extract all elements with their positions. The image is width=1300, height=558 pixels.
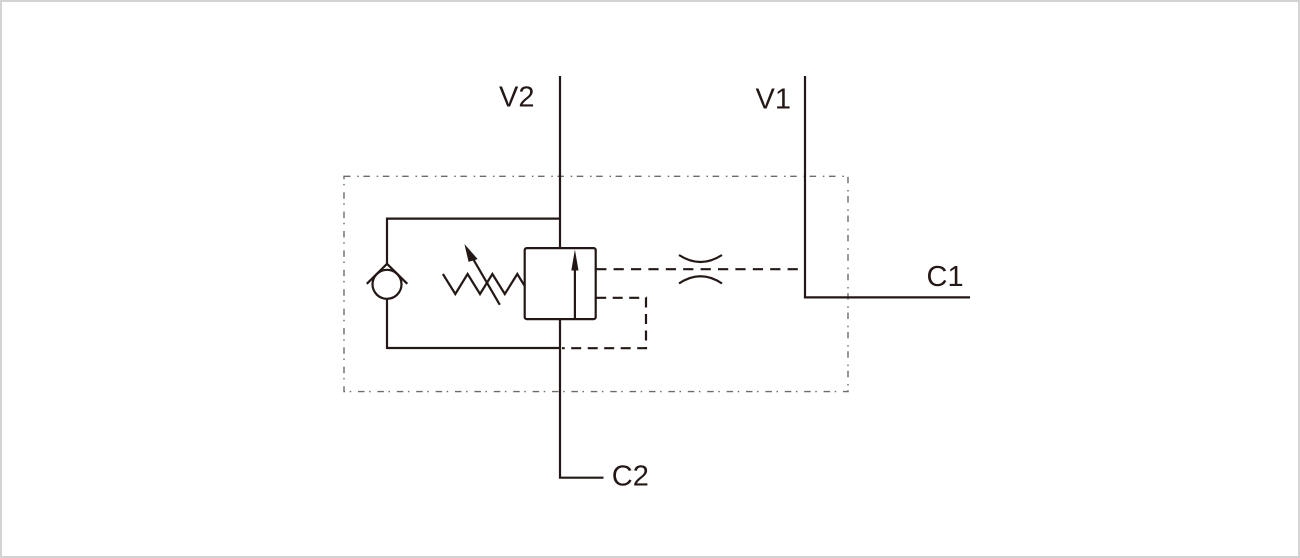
svg-text:C2: C2 <box>612 461 649 493</box>
wire V2 vertical (port V2 to valve top) <box>559 76 561 249</box>
pilot line lower (dashed, valve drain loop) <box>562 298 646 348</box>
svg-text:C1: C1 <box>927 261 964 293</box>
orifice (venturi restriction) <box>679 255 722 284</box>
wire top branch (check valve to main line) <box>387 218 560 220</box>
pilot line upper (dashed, valve to V1 via orifice) <box>596 268 805 270</box>
adjustable spring (zigzag) <box>443 274 525 294</box>
wire check valve branch upper segment <box>386 218 388 266</box>
wire bottom branch (check valve to main line) <box>387 347 560 349</box>
svg-text:V2: V2 <box>499 82 534 114</box>
flow arrow inside valve body <box>571 250 578 319</box>
wire V1 vertical and C1 horizontal run <box>805 76 970 297</box>
wire C2 vertical (valve bottom to port C2) with end tick <box>560 319 604 478</box>
wire check valve branch lower segment <box>386 299 388 350</box>
relief valve body (square) <box>525 248 596 319</box>
adjustment arrow through spring <box>464 244 499 305</box>
enclosure boundary (dash-dot component box) <box>344 176 848 391</box>
check valve (ball and seat) <box>367 264 408 299</box>
svg-text:V1: V1 <box>756 84 791 116</box>
